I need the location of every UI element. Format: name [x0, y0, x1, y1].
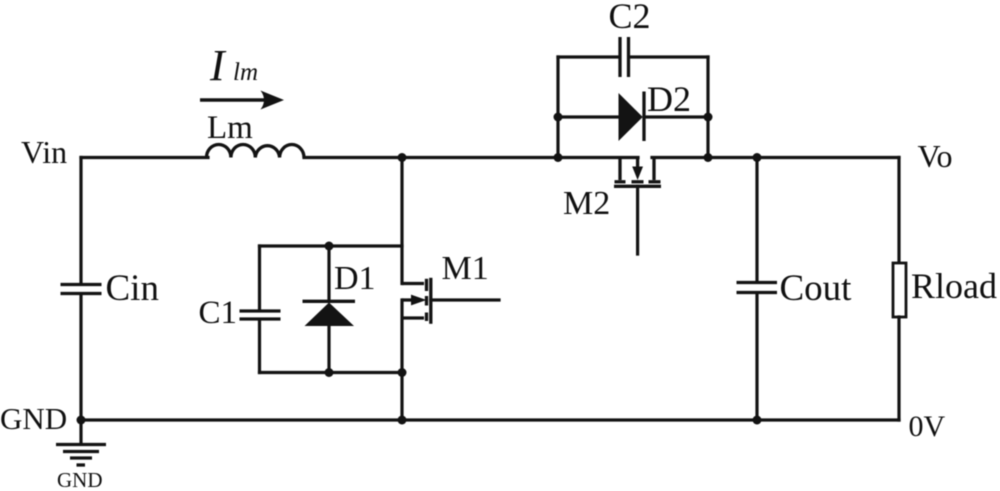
svg-text:M1: M1: [442, 250, 489, 287]
wire C2 box left vertical: [556, 57, 559, 158]
svg-text:lm: lm: [233, 59, 258, 86]
wire Cout vertical lower: [755, 294, 758, 420]
junction node C2 box right on main wire: [704, 153, 713, 162]
junction node D2 right: [704, 113, 713, 122]
ground symbol: [56, 445, 106, 466]
wire M1 source vertical: [400, 300, 403, 420]
junction node D1 bottom: [325, 368, 334, 377]
current direction arrow Ilm: [200, 91, 284, 110]
svg-text:C2: C2: [609, 0, 651, 36]
junction node D1 top: [325, 242, 334, 251]
diode D2: [619, 92, 645, 142]
wire C2 box right vertical: [706, 57, 709, 158]
wire Cout vertical upper: [755, 158, 758, 282]
junction node Cout top: [753, 153, 762, 162]
wire D1 cathode up: [327, 246, 330, 301]
junction node at Lm-M1: [398, 153, 407, 162]
resistor Rload: [893, 263, 906, 317]
wire top-middle horizontal Lm to M2: [304, 156, 638, 159]
wire box left lower: [258, 321, 261, 373]
svg-text:M2: M2: [563, 185, 610, 222]
wire bottom horizontal GND to 0V: [81, 418, 899, 421]
wire ground stub: [79, 420, 82, 444]
wire M1 gate lead: [431, 298, 499, 301]
svg-text:Cout: Cout: [780, 268, 853, 309]
capacitor Cin: [61, 285, 102, 294]
svg-text:Vin: Vin: [21, 134, 67, 170]
svg-text:Cin: Cin: [106, 268, 159, 309]
svg-text:Vo: Vo: [918, 138, 953, 174]
wire D1 anode down: [327, 326, 330, 373]
capacitor Cout: [737, 283, 778, 293]
junction node C2 box left on main wire: [554, 153, 563, 162]
svg-text:Rload: Rload: [911, 266, 997, 306]
junction node D2 left: [554, 113, 563, 122]
svg-text:0V: 0V: [909, 410, 946, 443]
wire right vertical Vo to Rload: [897, 158, 900, 264]
wire left vertical Cin to GND: [79, 295, 82, 420]
diode D1: [303, 301, 356, 326]
transistor M1: [402, 278, 431, 324]
wire box left upper: [258, 246, 261, 309]
inductor Lm: [207, 145, 305, 158]
wire left vertical Vin to Cin: [79, 158, 82, 284]
transistor M2: [614, 158, 661, 187]
capacitor C1 box top wire: [260, 244, 403, 247]
svg-text:D2: D2: [647, 79, 691, 119]
svg-text:Lm: Lm: [207, 110, 253, 146]
wire box bottom: [260, 371, 403, 374]
svg-text:GND: GND: [0, 401, 67, 436]
wire M2 gate lead: [636, 186, 639, 254]
svg-text:GND: GND: [57, 468, 103, 491]
svg-text:C1: C1: [199, 295, 238, 331]
junction node Cout bottom: [753, 416, 762, 425]
wire C2 top right: [631, 55, 709, 58]
junction node M1 source at bottom rail: [398, 416, 407, 425]
capacitor C1: [240, 311, 281, 319]
junction node M1 source at box bottom: [398, 368, 407, 377]
svg-text:I: I: [209, 41, 227, 90]
capacitor C2: [620, 37, 629, 77]
wire top-left horizontal Vin to Lm: [81, 156, 208, 159]
junction node GND corner: [77, 416, 86, 425]
svg-text:D1: D1: [334, 260, 376, 297]
wire D2 anode left: [558, 115, 619, 118]
wire right vertical Rload to 0V: [897, 317, 900, 420]
wire D2 cathode right: [644, 115, 708, 118]
wire top-right horizontal M2 to Vo corner: [652, 156, 899, 159]
wire M1 drain vertical: [400, 158, 403, 284]
wire C2 top left: [558, 55, 618, 58]
